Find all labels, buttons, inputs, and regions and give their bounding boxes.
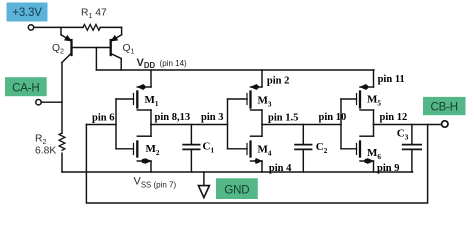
node pin 4: [269, 163, 292, 174]
wire +3.3V rail left: [34, 26, 83, 28]
wire CA-H terminal: [41, 101, 62, 103]
node pin 8,13: [155, 112, 191, 123]
wire net3: [374, 124, 443, 126]
wire +3.3V rail right: [100, 26, 121, 28]
mosfet M2: [116, 125, 160, 173]
node pin 1.5: [268, 113, 298, 124]
svg-text:GND: GND: [224, 184, 249, 196]
wire base tie: [72, 47, 111, 49]
svg-text:pin 8,13: pin 8,13: [155, 112, 191, 123]
node VDD rail: [96, 69, 374, 71]
node pin 3: [201, 112, 223, 123]
svg-text:pin 11: pin 11: [378, 74, 405, 85]
label VDD pin14: [137, 57, 188, 70]
wire net2: [262, 124, 341, 126]
transistor Q1: [111, 27, 135, 70]
svg-text:CB-H: CB-H: [431, 102, 458, 114]
node pin 10: [319, 112, 347, 123]
wire pin 6 input: [86, 124, 116, 126]
power label +3.3V: [7, 3, 48, 22]
resistor R2: [35, 133, 65, 157]
wire net1: [151, 124, 228, 126]
wire stage1 input stem: [115, 99, 117, 149]
node pin 9: [377, 163, 399, 174]
ground: [198, 172, 209, 198]
capacitor C2: [295, 125, 328, 173]
svg-text:pin 9: pin 9: [377, 163, 399, 174]
input label CA-H: [5, 77, 47, 96]
wire R2 bottom: [61, 153, 63, 172]
resistor R1: [81, 8, 107, 31]
svg-text:6.8K: 6.8K: [35, 146, 56, 157]
wire bases to VDD: [95, 48, 97, 71]
svg-text:pin 12: pin 12: [380, 112, 408, 123]
wire feedback: [86, 125, 427, 204]
node pin 11: [378, 74, 405, 85]
node pin 2: [267, 75, 289, 86]
terminal CA-H: [36, 100, 41, 105]
svg-text:pin 6: pin 6: [92, 112, 114, 123]
output label CB-H: [423, 97, 466, 115]
ground label GND: [216, 178, 258, 199]
svg-text:pin 1.5: pin 1.5: [268, 113, 298, 124]
mosfet M6: [341, 125, 381, 173]
mosfet M3: [228, 70, 272, 125]
capacitor C1: [183, 125, 214, 173]
label VSS pin7: [134, 176, 177, 190]
svg-text:R1 47: R1 47: [81, 8, 107, 21]
svg-text:CA-H: CA-H: [12, 82, 39, 94]
wire stage2 input stem: [227, 99, 229, 149]
svg-text:pin 3: pin 3: [201, 112, 223, 123]
node VSS rail: [62, 171, 413, 173]
terminal CB-H: [442, 121, 448, 127]
svg-text:pin 2: pin 2: [267, 75, 289, 86]
terminal +3.3V: [28, 25, 33, 30]
svg-text:pin 10: pin 10: [319, 112, 347, 123]
mosfet M4: [228, 125, 272, 173]
svg-text:+3.3V: +3.3V: [12, 7, 42, 19]
svg-text:pin 4: pin 4: [269, 163, 292, 174]
mosfet M5: [341, 70, 381, 125]
wire stage3 input stem: [340, 99, 342, 149]
mosfet M1: [116, 70, 159, 125]
capacitor C3: [397, 125, 421, 173]
node pin 6: [92, 112, 114, 123]
node pin 12: [380, 112, 408, 123]
wire CA-H node vertical: [61, 63, 63, 134]
transistor Q2: [52, 27, 72, 62]
